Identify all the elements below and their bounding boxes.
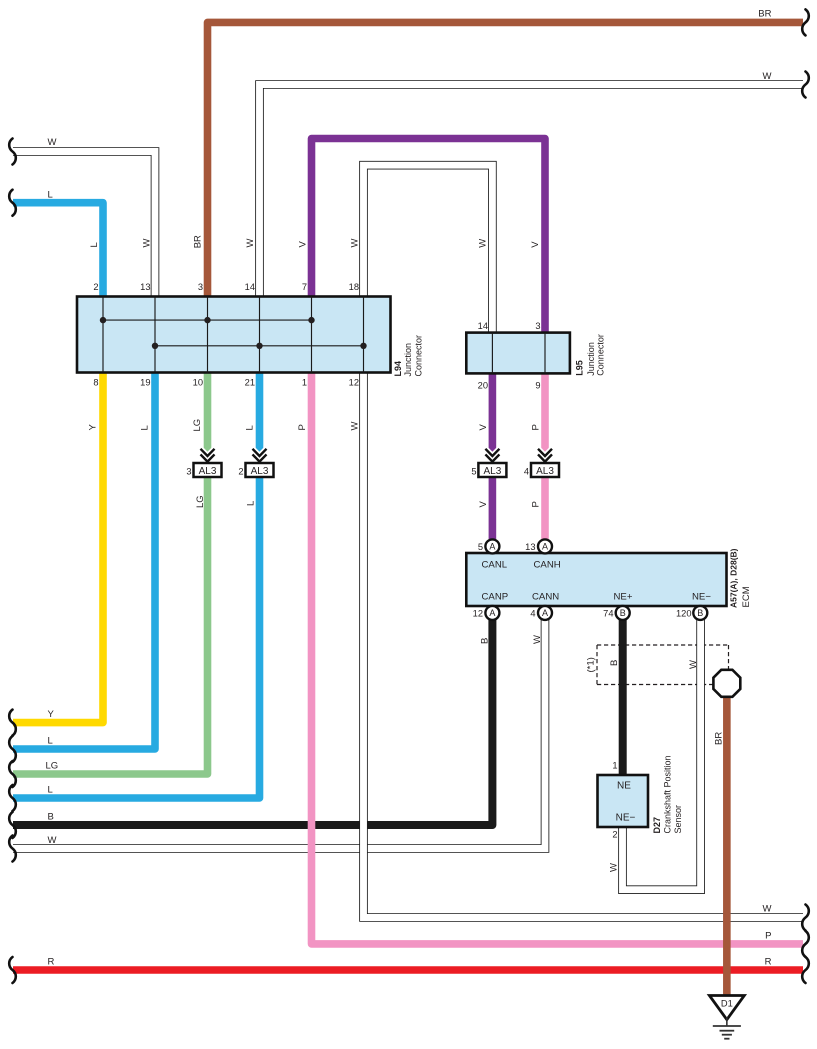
- svg-text:V: V: [478, 501, 489, 508]
- svg-text:W: W: [350, 422, 361, 431]
- svg-text:R: R: [48, 957, 55, 968]
- AL3 connector 3: [194, 449, 222, 477]
- wire V from L94 pin7 to L95 pin3: [312, 139, 546, 333]
- ECM pin numbers: [473, 542, 692, 619]
- crankshaft position sensor D27 box: [598, 775, 649, 827]
- svg-text:5: 5: [471, 467, 476, 477]
- svg-text:B: B: [609, 660, 620, 666]
- svg-text:B: B: [48, 812, 54, 823]
- svg-text:L: L: [246, 501, 257, 506]
- wire W from left edge to L94 pin13: [13, 152, 155, 297]
- svg-text:4: 4: [530, 609, 535, 619]
- svg-text:P: P: [531, 501, 542, 507]
- svg-text:L: L: [245, 425, 256, 430]
- svg-text:NE: NE: [617, 781, 631, 792]
- L94 junction connector box: [77, 297, 391, 373]
- wire break squiggles, left edge: [9, 139, 16, 165]
- wire L from L94 pin19 to left edge: [13, 372, 155, 749]
- svg-text:BR: BR: [714, 732, 725, 745]
- svg-text:12: 12: [349, 378, 359, 388]
- svg-text:NE+: NE+: [614, 592, 633, 603]
- svg-text:9: 9: [535, 381, 540, 391]
- wire R left edge to right edge: [13, 966, 803, 974]
- svg-text:L: L: [89, 242, 100, 247]
- wire W from ECM pin4 CANN to left edge: [13, 620, 545, 849]
- svg-text:A: A: [542, 608, 548, 618]
- svg-text:L: L: [48, 736, 53, 747]
- svg-text:W: W: [763, 71, 772, 82]
- svg-text:Connector: Connector: [414, 335, 424, 377]
- L95 junction connector box: [466, 333, 570, 374]
- svg-text:LG: LG: [195, 495, 206, 508]
- svg-text:74: 74: [603, 609, 613, 619]
- svg-text:W: W: [245, 239, 256, 248]
- sensor internal labels: [616, 781, 636, 824]
- svg-text:8: 8: [93, 378, 98, 388]
- shield octagon: [713, 670, 740, 697]
- wire L from L94 pin21 to left edge: [13, 372, 260, 798]
- svg-text:CANH: CANH: [534, 560, 561, 571]
- svg-text:Sensor: Sensor: [673, 805, 683, 834]
- AL3 connector 2: [246, 449, 274, 477]
- svg-text:BR: BR: [758, 9, 771, 20]
- svg-text:L95: L95: [575, 360, 585, 376]
- svg-text:NE−: NE−: [692, 592, 711, 603]
- ECM pin connector circles 5(A) 13(A) 12(A) 4(A) 74(B) 120(B): [485, 539, 707, 620]
- wire B NE+ from ECM pin74 to sensor pin1: [619, 620, 627, 775]
- wire Y from L94 pin8 to left edge: [13, 372, 103, 723]
- svg-text:V: V: [478, 424, 489, 431]
- svg-text:CANL: CANL: [482, 560, 508, 571]
- svg-text:P: P: [297, 424, 308, 430]
- svg-text:L94: L94: [393, 361, 403, 377]
- svg-text:P: P: [531, 424, 542, 430]
- svg-text:2: 2: [93, 282, 98, 292]
- svg-text:W: W: [478, 239, 489, 248]
- svg-text:1: 1: [302, 378, 307, 388]
- svg-text:21: 21: [245, 378, 255, 388]
- D1 ground symbol: [709, 996, 744, 1039]
- svg-text:Junction: Junction: [403, 343, 413, 377]
- L94 internal bus junction dots: [100, 317, 367, 349]
- svg-text:5: 5: [478, 542, 483, 552]
- svg-text:D1: D1: [721, 999, 733, 1009]
- wire W from right edge to L94 pin14: [260, 85, 804, 297]
- svg-text:13: 13: [525, 542, 535, 552]
- svg-text:W: W: [350, 239, 361, 248]
- svg-text:D27: D27: [652, 817, 662, 834]
- svg-text:14: 14: [245, 282, 255, 292]
- svg-text:3: 3: [198, 282, 203, 292]
- svg-text:Y: Y: [88, 424, 99, 431]
- svg-text:(*1): (*1): [586, 657, 597, 672]
- svg-text:L: L: [48, 190, 53, 201]
- shield dashed box (*1): [597, 645, 729, 685]
- wire LG from L94 pin10 to left edge: [13, 372, 208, 774]
- svg-text:Crankshaft Position: Crankshaft Position: [663, 755, 673, 833]
- svg-text:W: W: [48, 137, 57, 148]
- svg-text:CANP: CANP: [482, 592, 509, 603]
- svg-text:1: 1: [612, 761, 617, 771]
- svg-text:Y: Y: [48, 709, 55, 720]
- svg-text:18: 18: [349, 282, 359, 292]
- connector designator labels: [393, 334, 752, 833]
- svg-text:Connector: Connector: [596, 334, 606, 376]
- rotated wire labels above L94: [89, 235, 541, 248]
- svg-text:CANN: CANN: [532, 592, 559, 603]
- svg-text:14: 14: [478, 321, 488, 331]
- svg-text:20: 20: [478, 381, 488, 391]
- wire break squiggles, right edge: [802, 9, 809, 35]
- AL3 pin numbers: [186, 467, 529, 477]
- svg-text:2: 2: [238, 467, 243, 477]
- svg-text:W: W: [688, 660, 699, 669]
- svg-text:W: W: [609, 863, 620, 872]
- svg-text:B: B: [697, 608, 703, 618]
- svg-text:7: 7: [302, 282, 307, 292]
- svg-text:W: W: [48, 835, 57, 846]
- wire BR from L94 pin3 up to right edge: [208, 22, 804, 296]
- svg-text:W: W: [532, 635, 543, 644]
- L95 pin numbers: [478, 321, 541, 391]
- svg-text:W: W: [763, 904, 772, 915]
- svg-text:3: 3: [186, 467, 191, 477]
- svg-text:W: W: [142, 239, 153, 248]
- svg-text:B: B: [620, 608, 626, 618]
- svg-text:4: 4: [524, 467, 529, 477]
- ECM internal labels: [482, 560, 712, 603]
- svg-text:A57(A), D28(B): A57(A), D28(B): [729, 548, 739, 608]
- svg-text:3: 3: [535, 321, 540, 331]
- svg-text:L: L: [48, 785, 53, 796]
- AL3 connector 5: [478, 449, 506, 477]
- svg-text:B: B: [480, 638, 491, 644]
- sensor pin numbers: [612, 761, 617, 840]
- svg-text:ECM: ECM: [741, 586, 752, 607]
- wire V from L95 pin20 to ECM pin5: [489, 373, 497, 539]
- svg-text:19: 19: [140, 378, 150, 388]
- svg-text:13: 13: [140, 282, 150, 292]
- svg-text:V: V: [530, 241, 541, 248]
- L94 internal pin column lines: [103, 297, 364, 373]
- wire B from ECM pin12 to left edge: [13, 620, 492, 825]
- rotated wire labels below L94: [88, 419, 542, 508]
- svg-text:BR: BR: [193, 235, 204, 248]
- svg-text:LG: LG: [192, 419, 203, 432]
- svg-text:10: 10: [193, 378, 203, 388]
- L94 pin numbers: [93, 282, 359, 388]
- wire W from L94 pin18 to L95 pin14: [364, 165, 493, 332]
- svg-text:2: 2: [612, 830, 617, 840]
- wire L from left edge to L94 pin2: [13, 203, 103, 297]
- svg-text:LG: LG: [46, 761, 59, 772]
- svg-text:V: V: [298, 241, 309, 248]
- rotated labels below ECM: [480, 635, 725, 872]
- wire P from L94 pin1 to right edge: [312, 372, 804, 944]
- svg-text:120: 120: [676, 609, 692, 619]
- L95 internal pin column lines: [492, 333, 545, 374]
- wire BR from shield octagon down to D1: [723, 694, 731, 996]
- AL3 connector 4: [531, 449, 559, 477]
- wire W NE- loop: ECM pin120 down, left, up to sensor pin2: [623, 620, 701, 890]
- svg-text:P: P: [765, 931, 771, 942]
- ECM box: [466, 553, 726, 606]
- wire W from L94 pin12 to right edge: [364, 372, 804, 918]
- svg-text:L: L: [140, 425, 151, 430]
- wire P from L95 pin9 to ECM pin13: [541, 373, 549, 539]
- svg-text:A: A: [489, 542, 495, 552]
- svg-text:A: A: [489, 608, 495, 618]
- svg-text:R: R: [765, 957, 772, 968]
- svg-text:12: 12: [473, 609, 483, 619]
- svg-text:NE−: NE−: [616, 813, 636, 824]
- svg-text:A: A: [542, 542, 548, 552]
- svg-text:Junction: Junction: [586, 342, 596, 376]
